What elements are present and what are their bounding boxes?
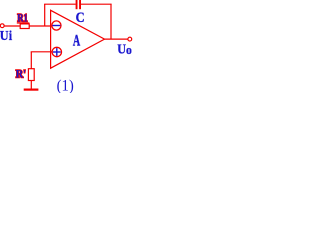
wire: input terminal to R1 (4, 25, 20, 27)
non-inverting input symbol (circled plus) (52, 47, 61, 56)
resistor R' (body) (28, 69, 34, 81)
svg-text:R': R' (16, 69, 27, 81)
svg-text:C: C (76, 10, 85, 26)
capacitor C left plate (76, 0, 78, 9)
wire: non-inverting input horizontal (31, 51, 53, 53)
inverting input symbol (circled minus) (52, 21, 61, 30)
svg-text:Ui: Ui (0, 28, 12, 43)
op-amp A (triangle) (51, 10, 105, 68)
capacitor C right plate (79, 0, 81, 9)
wire: R1 to inverting input (29, 25, 52, 27)
wire: top rail left (to capacitor) (44, 3, 75, 5)
svg-text:A: A (73, 33, 81, 50)
ground (24, 88, 39, 90)
wire: R' to ground (30, 81, 32, 90)
svg-text:Uo: Uo (117, 41, 132, 57)
resistor R1 (body) (20, 24, 29, 29)
wire: top rail right (capacitor to right corner) (81, 3, 112, 5)
svg-text:(1): (1) (57, 78, 74, 93)
wire: vertical down to R' (30, 52, 32, 69)
wire: output (apex to terminal) (105, 38, 128, 40)
output terminal Uo (circle) (128, 37, 132, 41)
label R1 underline (17, 22, 30, 24)
wire: feedback junction vertical (node to top rail) (44, 4, 46, 27)
wire: right vertical (top rail down to output) (110, 4, 112, 39)
input terminal Ui (circle) (0, 24, 4, 28)
